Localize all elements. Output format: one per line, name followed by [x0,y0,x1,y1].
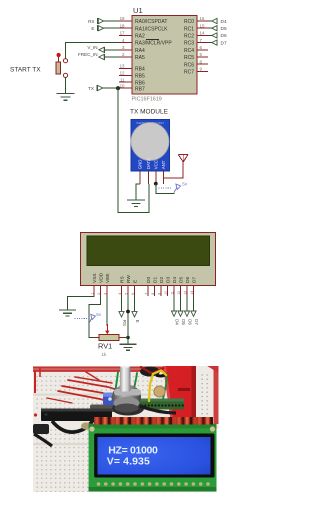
svg-text:RS: RS [122,320,127,326]
svg-text:14: 14 [190,291,194,295]
LCD LM016L body [81,232,216,285]
pin stub left 19 [119,16,132,21]
svg-text:D5: D5 [181,319,186,325]
svg-text:D4: D4 [221,19,227,25]
ground TX module [127,200,145,206]
pin stub left 2 [119,52,132,57]
svg-text:19: 19 [120,16,125,21]
pin stub left 3 [119,45,132,50]
pin stub left 13 [119,64,132,69]
LCD pin stub RW pin 5 [124,285,128,296]
terminal D4 [212,18,227,25]
svg-text:RA2: RA2 [135,34,145,40]
svg-text:16: 16 [200,16,205,21]
svg-text:RW: RW [126,275,132,283]
TX module pin label VCC [154,160,159,169]
LCD pin stub VSS pin 1 [90,285,94,296]
wire TX to RB7 [103,87,119,89]
svg-text:RC4: RC4 [184,48,194,54]
label START TX [10,67,41,74]
terminal FREC_IN [78,52,104,60]
pin stub left 18 [119,23,132,28]
svg-text:12: 12 [177,291,181,295]
wire VSS to ground [68,296,95,310]
svg-text:VSS: VSS [92,273,98,283]
push button START TX [56,53,68,78]
pin stub GND [139,171,141,184]
pin stub right 6 [197,45,208,50]
svg-text:1: 1 [90,293,94,295]
pin stub right 15 [197,23,208,28]
pin stub left 4 [119,38,132,43]
LCD pin stub D5 pin 12 [177,285,181,296]
LCD pin label D2 [159,277,165,283]
LCD pin label D0 [146,277,152,283]
svg-text:3: 3 [103,293,107,295]
svg-text:V_IN: V_IN [87,45,97,50]
ground RW/RV1 [120,344,137,350]
photo breadboard (decorative composite) [33,363,219,492]
svg-text:12: 12 [120,71,125,76]
pin stub DATA [147,171,149,184]
svg-text:RA5: RA5 [135,55,145,61]
pin name RB4 [135,67,145,73]
wire button to ground [65,78,67,94]
svg-text:DATA: DATA [146,158,151,169]
terminal TX [88,85,103,91]
svg-text:RA0/ICSPDAT: RA0/ICSPDAT [135,19,167,25]
svg-text:RA4: RA4 [135,48,145,54]
wire TX to TX MODULE DATA [118,88,149,212]
svg-text:D6: D6 [188,319,193,325]
pin name RB6 [135,80,145,86]
RV1 reference label [98,342,112,351]
terminal D6 (LCD) [184,311,192,325]
resistor RV1 body [99,335,119,341]
svg-text:6: 6 [131,293,135,295]
ground VSS [59,310,76,316]
wire LCD D4 down [173,296,175,311]
LCD pin stub VDD pin 2 [97,285,101,296]
wire RW to ground [127,296,129,344]
LCD pin label RS [119,276,125,283]
svg-text:V= 4.935: V= 4.935 [107,456,150,468]
svg-text:U1: U1 [133,6,143,15]
pin name RA3/MCLR/VPP [135,41,172,47]
wire RC1 to D5 [208,27,212,29]
svg-text:RC3: RC3 [184,41,194,47]
TX module antenna coil circle [131,123,169,161]
terminal D7 (LCD) [191,311,199,325]
LCD pin label D3 [165,277,171,283]
svg-text:D6: D6 [221,33,227,39]
pin stub right 14 [197,31,208,36]
svg-text:RA1/ICSPCLK: RA1/ICSPCLK [135,26,168,32]
wire RS to chip [104,20,119,22]
TX module pin label DATA [146,158,151,169]
LCD pin label D6 [185,277,191,283]
wire LCD E down [134,296,136,311]
svg-text:1k: 1k [102,352,108,357]
svg-text:9: 9 [200,67,203,72]
node VCC junction [154,182,158,186]
svg-text:13: 13 [120,64,125,69]
wire E to chip [104,27,119,29]
svg-text:5v: 5v [182,182,188,187]
wire LCD D6 down [186,296,188,311]
svg-text:D5: D5 [178,277,184,283]
pin name RA0/ICSPDAT [135,19,167,25]
svg-text:18: 18 [120,23,125,28]
wire FREC_IN to chip [104,56,119,58]
pin name RC5 [184,55,194,61]
svg-text:VEE: VEE [105,273,111,283]
svg-text:17: 17 [120,31,125,36]
svg-text:START TX: START TX [10,67,41,74]
wire RA3 to button [66,43,120,59]
LCD pin stub VEE pin 3 [103,285,107,296]
pin name RC2 [184,34,194,40]
pin stub VCC [155,171,157,184]
TX module body [131,120,169,172]
svg-text:D7: D7 [221,40,227,46]
svg-text:13: 13 [183,291,187,295]
LCD pin stub E pin 6 [131,285,135,296]
svg-text:10: 10 [164,291,168,295]
wire RC0 to D4 [208,20,212,22]
svg-text:10: 10 [120,83,125,88]
svg-text:D4: D4 [175,319,180,325]
pin stub left 17 [119,31,132,36]
svg-text:11: 11 [120,77,125,82]
LCD pin stub D1 pin 8 [151,285,155,296]
svg-text:D4: D4 [172,277,178,283]
svg-text:15: 15 [200,23,205,28]
terminal V_IN [87,45,104,53]
pin stub left 11 [119,77,132,82]
pin stub right 5 [197,52,208,57]
svg-text:9: 9 [157,293,161,295]
svg-text:RC5: RC5 [184,55,194,61]
svg-text:3: 3 [122,45,125,50]
wire V_IN to chip [104,49,119,51]
pin stub right 9 [197,67,208,72]
terminal E (LCD) [132,312,140,323]
node RW dot [126,310,130,314]
svg-text:7: 7 [144,293,148,295]
pin name RC3 [184,41,194,47]
TX module pin label GND [138,160,143,170]
LCD pin label D7 [191,277,197,283]
LCD pin stub D7 pin 14 [190,285,194,296]
svg-text:5v: 5v [96,312,102,317]
svg-text:E: E [91,26,94,31]
pin name RB5 [135,74,145,80]
wire LCD D7 down [193,296,195,311]
svg-text:5: 5 [200,52,203,57]
svg-text:TX: TX [88,86,94,91]
pin name RC4 [184,48,194,54]
wire LCD RS down [121,296,123,311]
pin name RA4 [135,48,145,54]
svg-text:RV1: RV1 [98,342,112,351]
svg-text:D7: D7 [194,319,199,325]
microcontroller U1 PIC16F1619 body [132,16,197,95]
wire VEE to RV1 wiper [106,296,108,326]
pin name RA5 [135,55,145,61]
ground START TX [57,94,75,101]
svg-text:D6: D6 [185,277,191,283]
svg-text:VCC: VCC [154,160,159,169]
svg-text:E: E [132,280,138,283]
pin name RA2 [135,34,145,40]
LCD pin label VEE [105,273,111,283]
terminal D7 [212,40,227,47]
LCD screen [87,236,210,266]
svg-text:GND: GND [138,160,143,170]
LCD pin stub RS pin 4 [118,285,122,296]
svg-text:4: 4 [122,38,125,43]
svg-text:5: 5 [124,293,128,295]
pin name RB7 [135,86,145,92]
svg-text:RC7: RC7 [184,70,194,76]
label TX MODULE [130,109,169,116]
pin stub left 10 [119,83,132,88]
terminal D6 [212,32,227,39]
svg-text:ANT: ANT [161,160,166,169]
pin stub right 7 [197,38,208,43]
svg-text:RB4: RB4 [135,67,145,73]
svg-text:2: 2 [97,293,101,295]
pin stub right 8 [197,59,208,64]
pin name RC1 [184,26,194,32]
svg-text:7: 7 [200,38,203,43]
svg-text:TX MODULE: TX MODULE [130,109,169,116]
wire RC2 to D6 [208,34,212,36]
LCD pin stub D3 pin 10 [164,285,168,296]
wire LCD D5 down [180,296,182,311]
LCD pin label VDD [98,272,104,283]
svg-text:D0: D0 [146,277,152,283]
power 5v flag (TX module) [159,182,188,193]
LCD pin label E [132,280,138,283]
svg-text:D2: D2 [159,277,165,283]
RV1 left terminal [94,337,99,339]
svg-text:FREC_IN: FREC_IN [78,52,98,57]
pin stub right 16 [197,16,208,21]
svg-text:RS: RS [88,19,94,24]
LCD pin label D5 [178,277,184,283]
terminal D5 [212,25,227,32]
terminal RS (LCD) [119,312,127,326]
svg-text:VDD: VDD [98,272,104,283]
LCD pin label D4 [172,277,178,283]
PIC16F1619 value label [132,97,162,103]
svg-text:RS: RS [119,276,125,283]
pin name RC0 [184,19,194,25]
svg-text:D3: D3 [165,277,171,283]
LCD pin label RW [126,275,132,283]
terminal D4 (LCD) [171,311,179,325]
svg-text:8: 8 [151,293,155,295]
TX module pin label ANT [161,160,166,169]
svg-text:PIC16F1619: PIC16F1619 [132,97,162,103]
pin name RC6 [184,62,194,68]
terminal E input [91,25,103,31]
wire RC3 to D7 [208,42,212,44]
terminal D5 (LCD) [178,311,186,325]
svg-text:11: 11 [170,291,174,295]
U1 reference label [133,6,143,15]
svg-text:14: 14 [200,31,205,36]
LCD pin label VSS [92,273,98,283]
pin name RA1/ICSPCLK [135,26,168,32]
node RV1-RW junction [126,336,130,340]
power 5v flag (LCD) [75,312,102,323]
svg-text:RC0: RC0 [184,19,194,25]
pin stub ANT [163,171,165,184]
MCLR overline [146,39,159,41]
svg-text:RC1: RC1 [184,26,194,32]
svg-text:RB5: RB5 [135,74,145,80]
svg-text:D7: D7 [191,277,197,283]
svg-text:E: E [135,320,140,323]
wire VCC to 5v flag [156,184,175,194]
pin stub left 12 [119,71,132,76]
LCD pin stub D6 pin 13 [183,285,187,296]
RV1 right terminal wire [119,337,128,339]
svg-text:D1: D1 [152,277,158,283]
node TX junction [116,86,120,90]
svg-text:RA3/MCLR/VPP: RA3/MCLR/VPP [135,41,172,47]
antenna AE1 [178,155,188,163]
LCD pin stub D0 pin 7 [144,285,148,296]
wire GND pin to ground [136,184,140,200]
svg-text:D5: D5 [221,26,227,32]
RV1 value 1k [102,352,108,357]
svg-text:RC2: RC2 [184,34,194,40]
svg-text:RC6: RC6 [184,62,194,68]
wire VDD to RV1 left [89,296,101,338]
wire ANT to antenna [164,162,184,184]
svg-text:4: 4 [118,293,122,295]
svg-text:6: 6 [200,45,203,50]
svg-text:2: 2 [122,52,125,57]
LCD pin stub D2 pin 9 [157,285,161,296]
LCD pin stub D4 pin 11 [170,285,174,296]
LCD pin label D1 [152,277,158,283]
terminal RS input [88,18,103,24]
svg-text:8: 8 [200,59,203,64]
RV1 wiper arrow [105,324,109,334]
svg-text:RB7: RB7 [135,86,145,92]
pin name RC7 [184,70,194,76]
